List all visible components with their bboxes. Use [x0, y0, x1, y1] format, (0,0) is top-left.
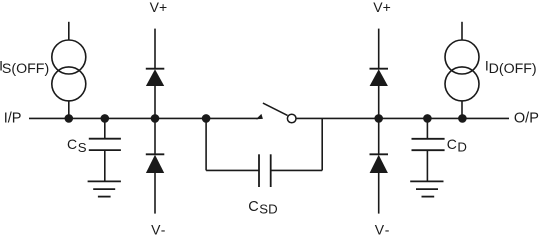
svg-text:C: C: [248, 199, 258, 215]
svg-text:I/P: I/P: [4, 111, 22, 127]
node: junction dot at CSD left branch: [202, 114, 211, 123]
wire CD branch down: [426, 118, 428, 138]
wire CSD right vertical: [321, 118, 323, 170]
wire CS to ground: [104, 150, 106, 181]
label CD: [447, 136, 467, 155]
wire V+ to diode (right): [378, 29, 380, 69]
svg-text:-: -: [385, 222, 390, 238]
node: junction dot at CS branch: [101, 114, 110, 123]
wire current-source to input line (left): [68, 101, 70, 119]
node: junction dot at current source / input line: [65, 114, 74, 123]
capacitor CS: [89, 139, 121, 150]
diode to V+ (left), cathode bar: [146, 68, 165, 70]
node: junction dot at CD branch: [423, 114, 432, 123]
node: junction dot at current source / output line: [458, 114, 467, 123]
svg-text:-: -: [161, 222, 166, 238]
svg-text:O/P: O/P: [514, 111, 539, 127]
wire CS branch down: [104, 118, 106, 138]
wire diode to output line (right upper): [378, 86, 380, 118]
diode to V+ (right), triangle: [370, 69, 388, 86]
switch lever: [263, 103, 288, 115]
diode from V- (left), cathode bar: [146, 153, 165, 155]
diode to V+ (right), cathode bar: [370, 68, 389, 70]
label ID(OFF): [485, 58, 537, 77]
label CSD: [248, 199, 277, 217]
svg-text:V: V: [151, 222, 161, 238]
label V- (right): [375, 222, 390, 238]
wire diode to input line (left upper): [154, 86, 156, 118]
node: junction dot at diode branch (left): [151, 114, 160, 123]
svg-text:V: V: [375, 222, 385, 238]
wire lower diode to V- (right): [378, 173, 380, 214]
svg-text:S: S: [78, 140, 87, 155]
svg-text:D(OFF): D(OFF): [489, 61, 537, 77]
label V+ (right): [373, 0, 391, 15]
wire input line to lower diode (left): [154, 118, 156, 154]
capacitor CD: [412, 139, 445, 150]
svg-text:V+: V+: [150, 0, 168, 15]
wire CSD left horizontal: [206, 169, 259, 171]
wire CSD right horizontal: [271, 169, 323, 171]
ground (below CS): [88, 181, 121, 196]
diode from V- (right), triangle: [370, 155, 388, 173]
wire lower diode to V- (left): [154, 173, 156, 214]
ground (below CD): [410, 181, 443, 196]
wire current-source top stub (left): [68, 22, 70, 40]
wire V+ to diode (left): [154, 29, 156, 69]
label CS: [67, 136, 87, 155]
current source IS(OFF): [52, 40, 86, 101]
svg-text:V+: V+: [373, 0, 391, 15]
wire current-source top stub (right): [461, 22, 463, 40]
wire output line: [296, 117, 509, 119]
svg-text:C: C: [447, 136, 457, 152]
wire CD to ground: [426, 150, 428, 181]
svg-text:SD: SD: [259, 201, 277, 216]
current source ID(OFF): [445, 40, 479, 101]
switch arrow (fixed contact): [256, 114, 263, 119]
diode from V- (left), triangle: [146, 155, 164, 173]
label I/P: [4, 111, 22, 127]
capacitor CSD: [259, 154, 271, 187]
svg-text:D: D: [457, 140, 467, 155]
label O/P: [514, 111, 539, 127]
diode from V- (right), cathode bar: [370, 153, 389, 155]
svg-text:S(OFF): S(OFF): [2, 61, 49, 77]
label V+ (left): [150, 0, 168, 15]
label IS(OFF): [0, 58, 49, 77]
label V- (left): [151, 222, 166, 238]
diode to V+ (left), triangle: [146, 69, 164, 86]
wire current-source to output line (right): [461, 101, 463, 119]
wire CSD left vertical: [205, 118, 207, 170]
wire input line: [29, 117, 258, 119]
wire output line to lower diode (right): [378, 118, 380, 154]
svg-text:C: C: [67, 136, 77, 152]
switch pivot circle: [287, 114, 296, 123]
node: junction dot at diode branch (right): [374, 114, 383, 123]
